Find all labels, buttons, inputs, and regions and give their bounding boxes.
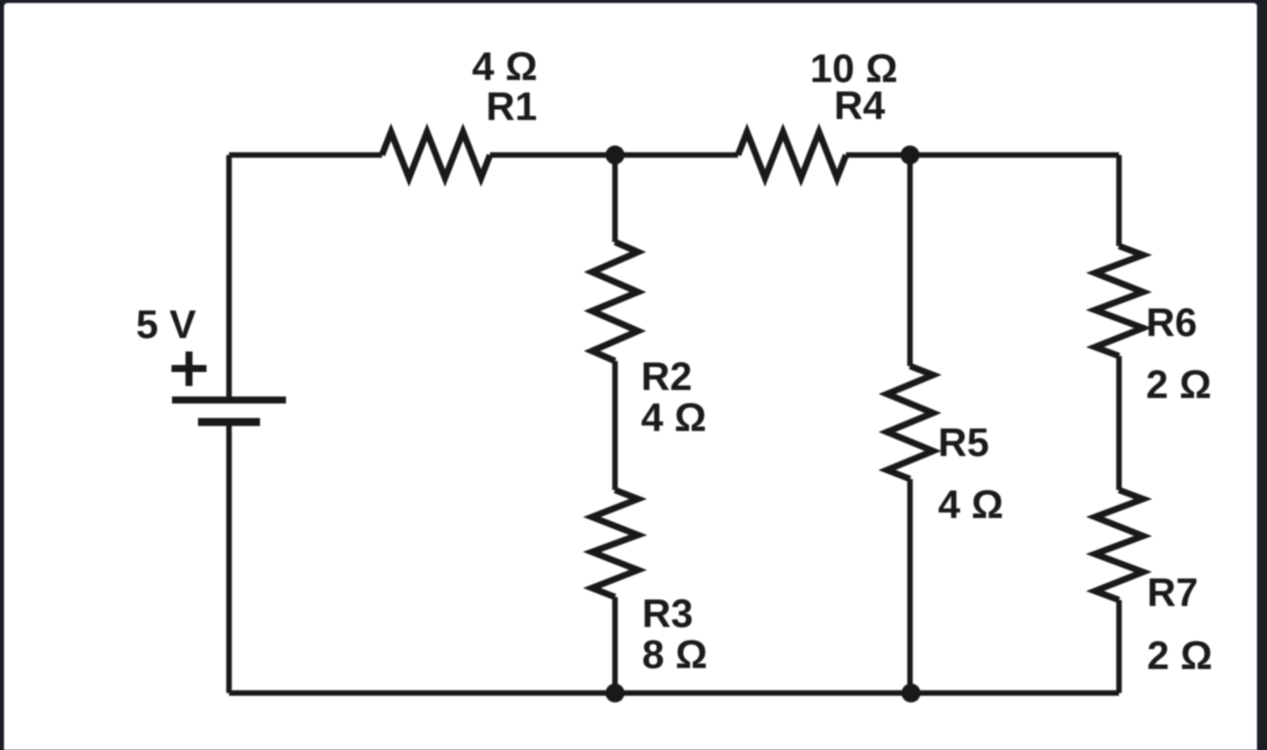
resistor R5 — [887, 366, 933, 479]
svg-text:R1: R1 — [486, 85, 537, 129]
wire R6 to R7 — [1116, 356, 1122, 490]
wire left vertical (battery top lead) — [226, 155, 232, 400]
wire bottom — [229, 690, 1119, 696]
svg-text:R6: R6 — [1146, 301, 1197, 345]
resistor R2 — [592, 242, 638, 361]
svg-text:8 Ω: 8 Ω — [642, 633, 707, 677]
svg-text:R7: R7 — [1147, 571, 1198, 615]
svg-text:2 Ω: 2 Ω — [1146, 363, 1211, 407]
node A junction dot — [606, 146, 625, 165]
wire R2 to R3 — [612, 361, 618, 490]
battery V1 bottom plate — [198, 418, 260, 426]
node B junction dot — [901, 146, 920, 165]
wire left vertical (battery bottom lead) — [226, 422, 232, 693]
node D junction dot (bottom right) — [902, 684, 921, 703]
svg-text:4 Ω: 4 Ω — [641, 396, 706, 440]
resistor R6 — [1095, 246, 1143, 356]
svg-text:R3: R3 — [642, 592, 693, 636]
wire R5 to bottom — [907, 479, 913, 693]
wire right top vertical — [1116, 155, 1122, 246]
resistor R1 — [382, 132, 490, 178]
resistor R3 — [592, 490, 638, 597]
wire right bottom vertical — [1116, 600, 1122, 693]
svg-text:R4: R4 — [834, 84, 886, 128]
svg-text:R5: R5 — [938, 421, 989, 465]
node C junction dot (bottom left) — [606, 684, 625, 703]
svg-text:4 Ω: 4 Ω — [472, 45, 537, 89]
svg-text:R2: R2 — [641, 355, 692, 399]
svg-text:4 Ω: 4 Ω — [938, 483, 1003, 527]
wire node A to R2 — [612, 155, 618, 242]
plus sign of source — [172, 352, 207, 387]
battery V1 top plate — [172, 397, 286, 404]
svg-text:5 V: 5 V — [136, 303, 196, 347]
resistor R4 — [738, 132, 846, 178]
wire top left segment — [229, 152, 382, 158]
svg-text:2 Ω: 2 Ω — [1147, 634, 1212, 678]
wire top right segment — [846, 152, 1119, 158]
wire top middle segment — [490, 152, 738, 158]
wire R3 to bottom — [612, 597, 618, 693]
wire node B to R5 — [907, 155, 913, 366]
resistor R7 — [1095, 490, 1143, 600]
